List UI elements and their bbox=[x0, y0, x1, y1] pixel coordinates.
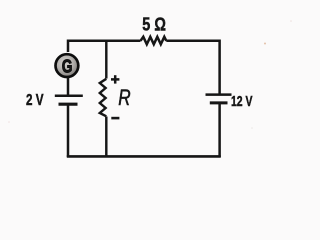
wire middle branch bottom bbox=[105, 117, 107, 158]
wire top-right segment bbox=[166, 41, 219, 95]
wire galvanometer to battery bbox=[67, 78, 70, 95]
bottom wire bbox=[67, 155, 221, 158]
battery B2 long plate bbox=[206, 93, 232, 96]
svg-text:R: R bbox=[118, 85, 130, 110]
minus sign bbox=[111, 117, 119, 120]
battery B1 long plate bbox=[55, 94, 83, 97]
wire battery to bottom bbox=[67, 104, 70, 157]
galvanometer G bbox=[56, 54, 79, 77]
wire top-left segment bbox=[68, 41, 141, 52]
wire battery to bottom right bbox=[218, 103, 221, 157]
resistor 5ohm zigzag bbox=[141, 37, 167, 45]
svg-text:G: G bbox=[62, 57, 73, 77]
svg-text:2 V: 2 V bbox=[26, 92, 44, 109]
resistor R zigzag bbox=[100, 79, 107, 117]
battery B2 short plate bbox=[210, 101, 228, 104]
battery B1 short plate bbox=[59, 103, 78, 106]
wire middle branch top bbox=[105, 40, 107, 79]
svg-text:5 Ω: 5 Ω bbox=[142, 15, 166, 35]
plus sign bbox=[111, 75, 119, 83]
svg-text:12 V: 12 V bbox=[231, 93, 253, 110]
